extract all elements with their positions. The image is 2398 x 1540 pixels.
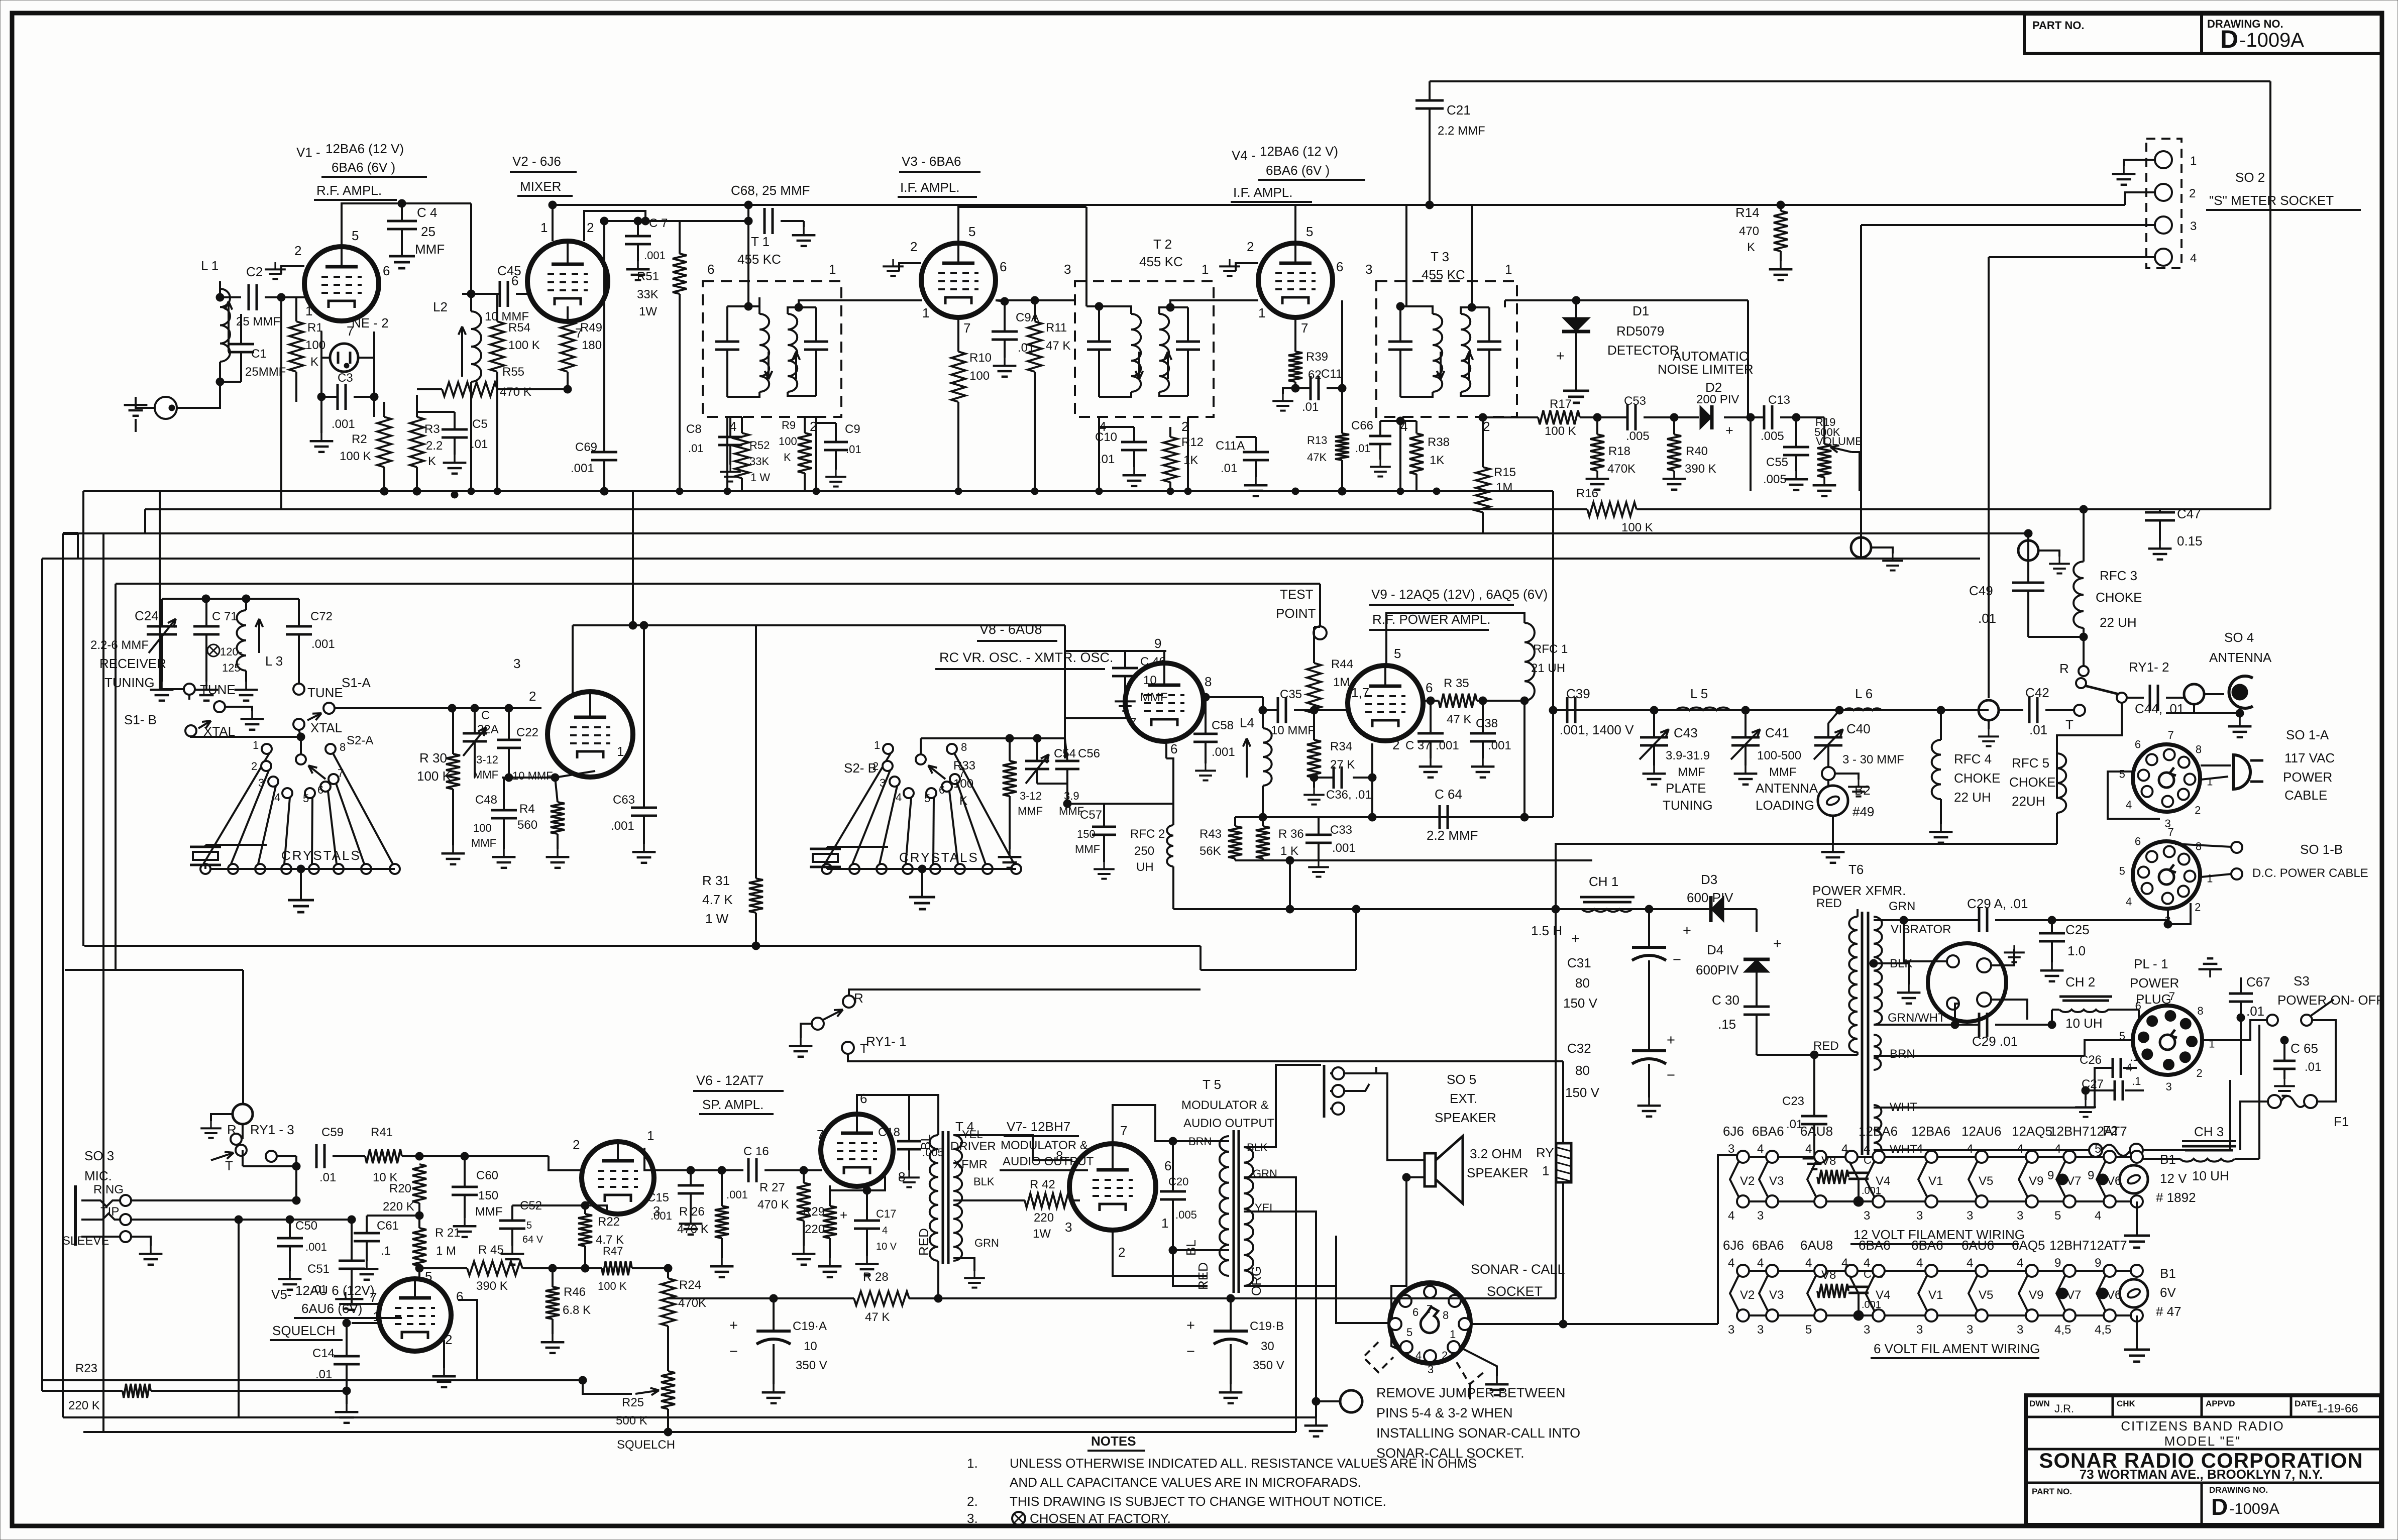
svg-text:455 KC: 455 KC xyxy=(1139,254,1183,269)
wire osc grid line xyxy=(921,737,1065,739)
svg-text:+: + xyxy=(1667,1032,1675,1048)
svg-text:4: 4 xyxy=(1967,1142,1973,1156)
tube V1 xyxy=(304,247,379,321)
svg-text:1-19-66: 1-19-66 xyxy=(2317,1402,2358,1415)
wire BRN to PL1 xyxy=(1874,1055,2085,1057)
svg-text:R10: R10 xyxy=(969,351,992,365)
svg-text:PART NO.: PART NO. xyxy=(2032,19,2084,32)
capacitor C60 xyxy=(452,1186,478,1188)
resistor R14 xyxy=(1774,211,1788,251)
svg-text:5: 5 xyxy=(2054,1209,2061,1223)
svg-text:R25: R25 xyxy=(622,1396,644,1409)
feedthrough on antenna lead xyxy=(2184,684,2204,704)
svg-text:220 K: 220 K xyxy=(68,1399,100,1412)
wire SO1-A pin8 to plug xyxy=(2201,764,2231,766)
svg-text:4: 4 xyxy=(1967,1256,1973,1270)
svg-text:R 30: R 30 xyxy=(419,750,447,765)
resistor R23 xyxy=(123,1384,151,1398)
T6 secondary winding 3 WHT xyxy=(1874,1105,1882,1155)
svg-text:100: 100 xyxy=(779,435,797,448)
svg-text:2: 2 xyxy=(1247,239,1254,254)
svg-text:#49: #49 xyxy=(1852,804,1874,819)
T1 primary tank xyxy=(715,341,739,343)
svg-text:2: 2 xyxy=(587,220,594,235)
svg-text:100: 100 xyxy=(953,777,973,791)
variable capacitor C43 plate tuning xyxy=(1640,736,1668,739)
svg-text:12BA6 (12 V): 12BA6 (12 V) xyxy=(325,141,404,156)
svg-text:V3 - 6BA6: V3 - 6BA6 xyxy=(902,154,961,169)
svg-text:R.F. POWER AMPL.: R.F. POWER AMPL. xyxy=(1372,612,1491,627)
transformer T2 dashed box xyxy=(1075,281,1214,417)
resistor R33 xyxy=(1003,761,1017,796)
svg-text:C43: C43 xyxy=(1674,725,1698,740)
capacitor C42 xyxy=(2028,697,2031,723)
svg-text:3: 3 xyxy=(1864,1209,1870,1223)
svg-text:150: 150 xyxy=(478,1189,498,1202)
svg-text:V1 -: V1 - xyxy=(296,145,320,160)
svg-text:.001: .001 xyxy=(305,1241,327,1253)
svg-text:7: 7 xyxy=(963,320,970,336)
svg-text:D4: D4 xyxy=(1707,942,1723,957)
resistor R31 xyxy=(749,878,763,913)
crystal bottom row S2-B xyxy=(827,868,1016,870)
svg-text:RY1 - 3: RY1 - 3 xyxy=(250,1122,294,1137)
svg-text:5: 5 xyxy=(1406,1326,1412,1339)
node RFC4 xyxy=(1937,706,1945,714)
svg-text:4: 4 xyxy=(1916,1142,1923,1156)
svg-text:2.2: 2.2 xyxy=(426,439,443,453)
variable capacitor C54 xyxy=(1025,760,1049,762)
capacitor C58 xyxy=(1193,733,1218,735)
svg-text:4: 4 xyxy=(1805,1256,1812,1270)
transformer T1 dashed box xyxy=(703,281,841,417)
svg-text:R: R xyxy=(2059,661,2069,676)
svg-text:6: 6 xyxy=(860,1091,867,1106)
svg-text:47 K: 47 K xyxy=(865,1310,890,1324)
svg-text:MODULATOR &: MODULATOR & xyxy=(1181,1098,1269,1112)
lamp B2 xyxy=(1818,786,1848,816)
svg-text:4: 4 xyxy=(2054,1142,2061,1156)
svg-text:3: 3 xyxy=(2017,1209,2023,1223)
svg-text:V2 - 6J6: V2 - 6J6 xyxy=(512,154,561,169)
wire V8 pin7 left xyxy=(1065,738,1067,739)
svg-text:MMF: MMF xyxy=(473,768,498,781)
choke RFC2 xyxy=(1167,825,1173,866)
svg-text:C19·A: C19·A xyxy=(793,1319,827,1333)
svg-text:4: 4 xyxy=(1841,1256,1848,1270)
svg-text:R41: R41 xyxy=(371,1126,393,1139)
svg-text:POWER ON- OFF: POWER ON- OFF xyxy=(2277,993,2384,1008)
resistor R22 xyxy=(578,1214,592,1246)
capacitor C48 xyxy=(491,809,517,812)
svg-text:NE - 2: NE - 2 xyxy=(352,315,389,331)
wire V8 pin9 xyxy=(1163,651,1165,663)
svg-text:3: 3 xyxy=(1064,262,1071,277)
svg-text:MMF: MMF xyxy=(475,1205,503,1219)
filament row rail top xyxy=(1739,1270,2137,1272)
capacitor C69 xyxy=(591,451,617,454)
capacitor C37 xyxy=(1418,732,1444,735)
feedthrough capacitor on TX line xyxy=(1979,700,1999,720)
svg-text:V1: V1 xyxy=(1928,1288,1943,1302)
svg-text:D.C. POWER CABLE: D.C. POWER CABLE xyxy=(2252,866,2368,880)
svg-text:.001, 1400 V: .001, 1400 V xyxy=(1560,722,1634,737)
svg-text:470 K: 470 K xyxy=(500,385,531,399)
wire into V6a grid xyxy=(549,1156,583,1170)
svg-text:4: 4 xyxy=(1728,1209,1734,1223)
svg-text:4: 4 xyxy=(882,1225,888,1236)
switch S1-A xyxy=(323,703,335,714)
svg-text:SQUELCH: SQUELCH xyxy=(272,1323,336,1338)
svg-text:C49: C49 xyxy=(1969,583,1993,598)
svg-text:1M: 1M xyxy=(1333,676,1350,689)
capacitor C10 xyxy=(1121,441,1147,444)
svg-text:TUNE: TUNE xyxy=(200,682,236,697)
svg-text:350 V: 350 V xyxy=(1253,1359,1284,1372)
svg-text:GRN: GRN xyxy=(1889,900,1915,913)
svg-text:CABLE: CABLE xyxy=(2284,788,2327,803)
wire V3 grid2 gnd xyxy=(899,263,921,271)
svg-text:.001: .001 xyxy=(611,819,634,833)
svg-text:4: 4 xyxy=(2190,252,2197,265)
terminal T xyxy=(2074,705,2085,716)
socket SO1-A xyxy=(2133,744,2200,812)
crystal bottom row S2-A xyxy=(205,868,395,870)
svg-text:.01: .01 xyxy=(1302,400,1319,414)
svg-text:R 26: R 26 xyxy=(679,1205,705,1219)
tube V8 xyxy=(1125,663,1204,741)
svg-text:220: 220 xyxy=(805,1223,825,1236)
svg-text:C31: C31 xyxy=(1567,955,1591,970)
resistor R9 xyxy=(798,433,812,473)
svg-text:6J6: 6J6 xyxy=(1723,1238,1744,1253)
svg-text:C39: C39 xyxy=(1566,686,1590,701)
capacitor C15 xyxy=(678,1184,704,1187)
plug 117VAC xyxy=(2233,755,2250,789)
svg-text:8: 8 xyxy=(961,741,967,753)
svg-text:C35: C35 xyxy=(1280,688,1302,701)
svg-text:C 4: C 4 xyxy=(417,205,437,220)
svg-text:3: 3 xyxy=(1728,1142,1734,1156)
wire SO1-B pin7 out xyxy=(2175,844,2231,847)
svg-text:MMF: MMF xyxy=(1140,691,1168,704)
svg-text:DATE: DATE xyxy=(2295,1399,2317,1408)
svg-text:R9: R9 xyxy=(782,419,796,431)
capacitor C4 xyxy=(387,220,417,223)
svg-text:MIXER: MIXER xyxy=(520,179,561,194)
svg-text:RFC 2: RFC 2 xyxy=(1130,827,1165,841)
svg-text:V4: V4 xyxy=(1876,1288,1890,1302)
crystal element S2-A xyxy=(190,846,221,848)
svg-text:5: 5 xyxy=(425,1269,432,1284)
variable capacitor C22A xyxy=(463,732,487,735)
svg-text:C8: C8 xyxy=(686,422,702,436)
svg-text:.01: .01 xyxy=(846,443,861,456)
wire V5 cathode gnd xyxy=(443,1340,445,1368)
svg-text:6: 6 xyxy=(1000,259,1007,274)
wire S3 left xyxy=(2202,1020,2267,1040)
wire SO2 pin4 xyxy=(1989,256,2155,258)
svg-text:RY1- 2: RY1- 2 xyxy=(2129,659,2169,675)
capacitor C36 xyxy=(1333,766,1335,789)
resistor R3 xyxy=(410,417,424,467)
svg-text:1: 1 xyxy=(647,1128,654,1143)
resistor R21 xyxy=(412,1228,426,1266)
wire L4 node xyxy=(1313,713,1315,740)
svg-text:"S" METER SOCKET: "S" METER SOCKET xyxy=(2209,193,2334,208)
switch S2-B pole xyxy=(916,754,926,764)
svg-text:DRAWING NO.: DRAWING NO. xyxy=(2207,18,2283,30)
svg-text:6: 6 xyxy=(2135,835,2141,848)
svg-text:CHOKE: CHOKE xyxy=(2096,590,2142,605)
resistor R40 xyxy=(1667,434,1681,471)
capacitor C59 xyxy=(315,1144,318,1168)
svg-text:C55: C55 xyxy=(1766,456,1788,469)
wire bus vertical x1260 xyxy=(632,491,634,625)
svg-text:I.F. AMPL.: I.F. AMPL. xyxy=(1233,185,1293,200)
svg-text:NOISE LIMITER: NOISE LIMITER xyxy=(1658,362,1754,377)
svg-text:100 K: 100 K xyxy=(417,768,452,784)
svg-text:5: 5 xyxy=(1394,646,1401,661)
wire osc top line xyxy=(1065,650,1164,652)
svg-text:7: 7 xyxy=(1129,715,1136,730)
tube V6a xyxy=(582,1142,654,1214)
svg-text:R11: R11 xyxy=(1046,321,1067,335)
svg-text:80: 80 xyxy=(1575,1063,1590,1078)
capacitor C35 xyxy=(1277,697,1279,723)
svg-text:2: 2 xyxy=(2195,804,2201,816)
wire RFC1 down to C64 line xyxy=(1523,701,1525,817)
svg-text:K: K xyxy=(959,794,967,808)
svg-text:C50: C50 xyxy=(295,1219,317,1233)
svg-text:6: 6 xyxy=(2135,738,2141,751)
svg-text:RED: RED xyxy=(1816,897,1842,910)
wire grid return bus xyxy=(280,297,282,372)
crystal fan S2-A xyxy=(296,754,306,764)
svg-text:K: K xyxy=(310,355,318,369)
svg-text:10 V: 10 V xyxy=(876,1241,897,1252)
svg-text:C32: C32 xyxy=(1567,1041,1591,1056)
svg-text:TUNING: TUNING xyxy=(104,675,155,690)
svg-text:6BA6: 6BA6 xyxy=(1859,1238,1891,1253)
wire V6b cathode to R29 C17 xyxy=(830,1176,885,1190)
svg-text:12BA6 (12 V): 12BA6 (12 V) xyxy=(1260,144,1338,159)
svg-text:R29: R29 xyxy=(803,1205,825,1219)
svg-text:.01: .01 xyxy=(315,1368,332,1381)
wire audio B+ line y1713 xyxy=(1235,859,1592,861)
svg-text:5: 5 xyxy=(2095,1142,2101,1156)
svg-text:DRIVER: DRIVER xyxy=(950,1140,996,1153)
svg-text:1: 1 xyxy=(305,303,312,318)
tube V2 xyxy=(527,241,608,321)
svg-text:100-500: 100-500 xyxy=(1757,749,1801,762)
svg-text:R54: R54 xyxy=(508,321,530,335)
svg-text:150 V: 150 V xyxy=(1563,996,1598,1011)
SO1-A bracket xyxy=(2108,772,2160,819)
wire R20 R21 node xyxy=(418,1203,420,1228)
svg-text:.005: .005 xyxy=(1763,473,1787,486)
svg-text:2: 2 xyxy=(2189,187,2196,200)
svg-text:SPEAKER: SPEAKER xyxy=(1467,1165,1529,1180)
wire junction to S2-A pole xyxy=(300,737,302,754)
svg-text:47 K: 47 K xyxy=(1046,339,1070,353)
resistor R52 xyxy=(735,433,749,478)
svg-text:R39: R39 xyxy=(1306,350,1328,364)
capacitor C20 xyxy=(1160,1190,1186,1193)
wire RY1-1 T line xyxy=(848,1054,1563,1061)
resistor R24 xyxy=(661,1278,675,1326)
svg-text:1: 1 xyxy=(829,262,836,277)
svg-text:6AU8: 6AU8 xyxy=(1800,1238,1833,1253)
svg-text:−: − xyxy=(729,1344,738,1360)
svg-text:RC VR. OSC. - XMTR. OSC.: RC VR. OSC. - XMTR. OSC. xyxy=(939,650,1114,665)
svg-text:L2: L2 xyxy=(433,299,448,314)
svg-text:POWER: POWER xyxy=(2130,975,2179,991)
svg-text:100: 100 xyxy=(969,369,990,383)
svg-text:V2: V2 xyxy=(1740,1174,1755,1188)
wire TX output line xyxy=(1553,709,1989,711)
svg-text:3: 3 xyxy=(2017,1323,2023,1337)
svg-text:.1: .1 xyxy=(381,1244,391,1258)
svg-text:.01: .01 xyxy=(319,1171,336,1184)
capacitor C29A xyxy=(1978,908,1981,932)
resistor R54 xyxy=(490,321,504,372)
svg-text:100 K: 100 K xyxy=(1621,521,1653,534)
svg-text:R49: R49 xyxy=(580,321,602,335)
svg-text:SONAR - CALL: SONAR - CALL xyxy=(1471,1262,1565,1277)
svg-text:S2- B: S2- B xyxy=(844,760,877,776)
wire speaker leads xyxy=(1344,1073,1425,1160)
svg-text:.001: .001 xyxy=(332,417,355,431)
svg-text:V9: V9 xyxy=(2029,1288,2043,1302)
svg-text:4: 4 xyxy=(896,791,902,804)
svg-text:2: 2 xyxy=(2195,901,2201,913)
capacitor C61 xyxy=(354,1232,380,1235)
resistor R47 xyxy=(602,1261,632,1275)
svg-text:VIBRATOR: VIBRATOR xyxy=(1891,923,1951,936)
svg-text:V4: V4 xyxy=(1876,1174,1890,1188)
svg-text:.01: .01 xyxy=(1355,442,1371,455)
svg-text:C10: C10 xyxy=(1095,430,1117,444)
resistor R46 xyxy=(546,1287,560,1319)
svg-text:1: 1 xyxy=(1202,262,1209,277)
svg-text:C48: C48 xyxy=(475,793,497,807)
bottom title block box xyxy=(2026,1395,2381,1525)
svg-text:MMF: MMF xyxy=(471,837,496,849)
svg-text:4: 4 xyxy=(1728,1256,1734,1270)
svg-text:180: 180 xyxy=(582,339,602,352)
resistor R15 xyxy=(1476,467,1490,512)
svg-text:C 16: C 16 xyxy=(743,1145,769,1158)
svg-text:3: 3 xyxy=(1757,1209,1764,1223)
svg-text:3: 3 xyxy=(2166,1080,2172,1093)
svg-text:100 K: 100 K xyxy=(340,450,371,463)
crystal fan S2-B xyxy=(883,744,893,754)
capacitor C21 xyxy=(1415,99,1444,102)
wire T2 sec to V4 grid xyxy=(1170,300,1258,307)
svg-text:INSTALLING SONAR-CALL INTO: INSTALLING SONAR-CALL INTO xyxy=(1376,1425,1580,1441)
node plate tank xyxy=(1650,706,1658,714)
svg-text:T: T xyxy=(860,1041,868,1056)
svg-text:R44: R44 xyxy=(1331,657,1353,671)
svg-text:R34: R34 xyxy=(1330,740,1352,753)
svg-text:.01: .01 xyxy=(1978,611,1996,626)
svg-text:3-12: 3-12 xyxy=(476,753,498,766)
svg-text:T 3: T 3 xyxy=(1431,249,1449,264)
svg-text:SO 3: SO 3 xyxy=(84,1148,114,1163)
svg-text:CHOKE: CHOKE xyxy=(1954,771,2000,786)
wire mic tip xyxy=(132,1219,239,1221)
svg-text:C29 .01: C29 .01 xyxy=(1972,1034,2018,1049)
variable capacitor C40 xyxy=(1814,736,1842,739)
svg-text:REMOVE JUMPER BETWEEN: REMOVE JUMPER BETWEEN xyxy=(1376,1385,1566,1400)
svg-text:C5: C5 xyxy=(472,417,488,431)
svg-text:C61: C61 xyxy=(377,1219,399,1233)
svg-text:33K: 33K xyxy=(749,455,769,468)
sonar call socket xyxy=(1390,1283,1470,1363)
resistor R16 xyxy=(1587,502,1637,516)
feedthrough capacitor 2 xyxy=(2018,540,2038,561)
feedthrough capacitor near C49 xyxy=(1851,537,1871,558)
wire V1 grid2 ground xyxy=(281,266,304,274)
svg-text:1: 1 xyxy=(1505,262,1512,277)
svg-text:GRN: GRN xyxy=(974,1237,999,1249)
svg-text:6: 6 xyxy=(1412,1306,1419,1318)
svg-text:6: 6 xyxy=(1336,259,1343,274)
svg-text:RFC 3: RFC 3 xyxy=(2100,568,2137,583)
svg-text:CHOSEN AT FACTORY.: CHOSEN AT FACTORY. xyxy=(1030,1511,1171,1526)
wire T3 sec to detector line xyxy=(1505,299,1576,301)
ground bus dots xyxy=(381,488,388,495)
switch S1-A tune contact xyxy=(293,684,304,695)
svg-text:10 MMF: 10 MMF xyxy=(512,769,553,782)
capacitor C11 xyxy=(1310,376,1312,400)
svg-text:22A: 22A xyxy=(477,723,499,736)
svg-text:R 36: R 36 xyxy=(1278,827,1304,841)
svg-text:S1- B: S1- B xyxy=(124,712,157,727)
wire detector top line xyxy=(1430,80,2270,82)
svg-text:8: 8 xyxy=(2197,1005,2203,1017)
capacitor C73 xyxy=(1848,1286,1869,1288)
resistor R2 xyxy=(377,417,391,467)
svg-text:6BA6 (6V ): 6BA6 (6V ) xyxy=(332,160,395,175)
svg-text:S1-A: S1-A xyxy=(342,675,371,690)
svg-text:64 V: 64 V xyxy=(522,1234,543,1245)
svg-text:C 64: C 64 xyxy=(1435,787,1462,802)
T3 secondary tank xyxy=(1477,341,1501,343)
svg-text:1.0: 1.0 xyxy=(2067,943,2086,958)
svg-text:CRYSTALS: CRYSTALS xyxy=(899,850,979,865)
wire V6a cathode xyxy=(585,1205,607,1211)
svg-text:3: 3 xyxy=(1757,1323,1764,1337)
filament pilot lamp B1 xyxy=(2120,1279,2148,1307)
svg-text:MODEL "E": MODEL "E" xyxy=(2164,1434,2241,1449)
fuse F1 xyxy=(2268,1095,2281,1108)
svg-text:C9: C9 xyxy=(845,422,860,436)
svg-text:4: 4 xyxy=(2126,1061,2132,1074)
svg-text:6: 6 xyxy=(456,1289,463,1304)
resistor R20 xyxy=(412,1164,426,1203)
svg-text:SO 4: SO 4 xyxy=(2224,630,2254,645)
feedthrough by sonar call xyxy=(1340,1390,1362,1412)
svg-text:25MMF: 25MMF xyxy=(245,365,286,379)
svg-text:.001: .001 xyxy=(726,1188,748,1201)
filament pilot lamp B1 xyxy=(2120,1165,2148,1193)
svg-text:6BA6: 6BA6 xyxy=(1752,1238,1784,1253)
svg-text:K: K xyxy=(1747,241,1755,254)
wire to C68 xyxy=(680,220,748,222)
svg-text:BL: BL xyxy=(1183,1240,1198,1256)
